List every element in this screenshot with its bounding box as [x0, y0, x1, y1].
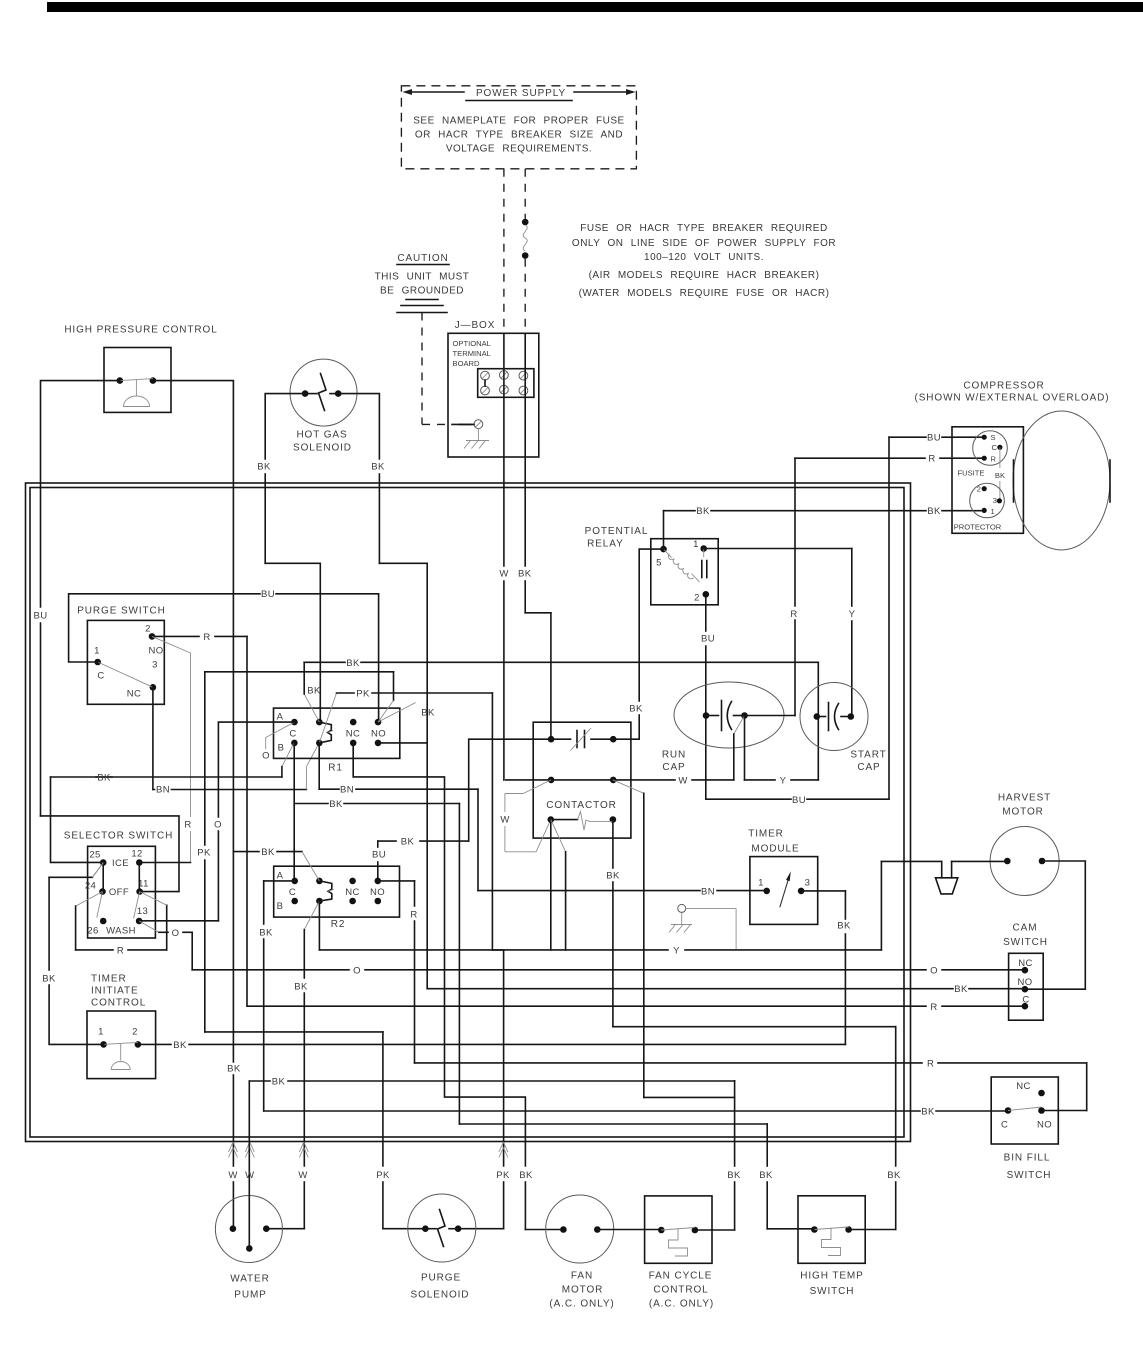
- wire label R: [184, 820, 191, 831]
- contactor coil: [548, 812, 617, 831]
- svg-text:BK: BK: [887, 1170, 901, 1181]
- bin fill NC: [1016, 1081, 1045, 1096]
- selector contact 25: [89, 850, 106, 866]
- svg-text:(A.C. ONLY): (A.C. ONLY): [649, 1299, 714, 1310]
- svg-text:26: 26: [87, 926, 98, 937]
- svg-text:BOARD: BOARD: [453, 359, 481, 368]
- svg-text:HIGH TEMP: HIGH TEMP: [800, 1271, 863, 1282]
- protector terminal 2: [977, 485, 987, 494]
- j-box enclosure: [448, 333, 539, 457]
- svg-text:R: R: [928, 454, 935, 465]
- svg-text:OFF: OFF: [109, 887, 129, 898]
- wire label PK: [197, 848, 211, 859]
- potential relay label: [585, 526, 649, 550]
- contactor main contact 1: [548, 728, 617, 751]
- R2 coil bracket: [319, 881, 333, 901]
- contactor main contact 2: [506, 777, 617, 784]
- R1 pin C: [278, 728, 298, 753]
- svg-text:NO: NO: [370, 887, 385, 898]
- svg-text:WASH: WASH: [106, 926, 136, 937]
- svg-text:SOLENOID: SOLENOID: [411, 1290, 470, 1301]
- wire BK hot gas left to R1 coil: [265, 394, 320, 722]
- selector blade 25: [92, 863, 103, 878]
- svg-text:BK: BK: [294, 982, 308, 993]
- svg-text:BK: BK: [629, 704, 643, 715]
- R1 coil bracket: [319, 722, 333, 743]
- relay R1 box: [274, 708, 400, 758]
- svg-text:SELECTOR SWITCH: SELECTOR SWITCH: [64, 831, 173, 842]
- timer initiate contact 2: [132, 1027, 141, 1048]
- hot gas solenoid label: [293, 430, 352, 454]
- wire R purge 2 to cam switch C: [152, 636, 1025, 1006]
- wire label BK: [346, 658, 360, 669]
- R2 pin C: [277, 887, 298, 912]
- svg-text:J—BOX: J—BOX: [455, 320, 496, 331]
- hpc bellows: [124, 380, 150, 407]
- selector contact 12: [131, 849, 142, 866]
- svg-text:C: C: [289, 887, 296, 898]
- wire label BK: [606, 871, 620, 882]
- wire crossing mark W: [299, 1142, 308, 1158]
- water pump: [215, 1196, 282, 1263]
- wire BK R2 coil bottom to water pump: [266, 901, 319, 1229]
- svg-text:BU: BU: [372, 850, 386, 861]
- cam switch box: [1009, 953, 1044, 1020]
- svg-text:TIMER: TIMER: [748, 829, 784, 840]
- purge solenoid: [408, 1194, 476, 1262]
- wire label BK: [173, 1040, 187, 1051]
- wire label BU: [34, 611, 48, 622]
- wire label O: [353, 965, 361, 976]
- svg-text:BN: BN: [340, 785, 354, 796]
- purge switch blade: [98, 662, 153, 687]
- terminal screw T2: [500, 371, 509, 380]
- svg-text:BK: BK: [329, 799, 343, 810]
- svg-text:CAP: CAP: [857, 762, 880, 773]
- wire label PK: [376, 1170, 390, 1181]
- wire caution ground to j-box dashed: [422, 313, 472, 425]
- timer module pin 3: [798, 878, 811, 895]
- power supply dimension arrow left: [403, 89, 465, 95]
- svg-text:ICE: ICE: [112, 858, 129, 869]
- selector contact 24: [85, 881, 106, 895]
- wire label BU: [372, 850, 386, 861]
- protector terminal 3: [993, 496, 1002, 505]
- wire contactor coil left stub down: [550, 820, 552, 950]
- compressor shell ellipse: [1013, 411, 1110, 550]
- svg-text:W: W: [298, 1170, 307, 1181]
- protector label: [954, 523, 1002, 532]
- svg-text:BK: BK: [606, 871, 620, 882]
- wire label BK: [759, 1170, 773, 1181]
- svg-text:CAUTION: CAUTION: [397, 253, 448, 264]
- bin fill C: [1001, 1107, 1011, 1130]
- timer module box: [750, 857, 818, 925]
- wire BN purge 3 to R1 coil B: [153, 687, 319, 789]
- wire W1 to R1 NO top: [205, 672, 394, 722]
- R2 coil pins: [316, 878, 323, 905]
- R1 pin NC: [346, 719, 361, 746]
- svg-text:OR HACR TYPE BREAKER SIZE AND: OR HACR TYPE BREAKER SIZE AND: [415, 130, 623, 141]
- wire BK R1 NO to hot-gas wire: [378, 742, 427, 744]
- svg-text:HOT GAS: HOT GAS: [296, 430, 347, 441]
- timer module label: [748, 829, 799, 855]
- fuse symbol on L2: [522, 219, 529, 259]
- svg-text:5: 5: [656, 558, 662, 569]
- selector switch label: [64, 831, 173, 842]
- svg-text:BK: BK: [954, 984, 968, 995]
- svg-text:2: 2: [145, 624, 151, 635]
- cam switch NO: [1017, 977, 1032, 993]
- wire R R2 NO to bin fill NO: [378, 881, 1087, 1111]
- wire O R1 A to selector 13: [139, 722, 294, 921]
- svg-text:BK: BK: [173, 1040, 187, 1051]
- svg-text:POTENTIAL: POTENTIAL: [585, 526, 649, 537]
- svg-text:PK: PK: [376, 1170, 390, 1181]
- start cap plates: [814, 703, 855, 731]
- high temp switch label: [800, 1271, 863, 1298]
- svg-text:BIN FILL: BIN FILL: [1004, 1153, 1051, 1164]
- svg-text:BU: BU: [927, 433, 941, 444]
- wire Y relay 1 to start cap: [704, 549, 852, 717]
- wire label BK: [519, 1170, 533, 1181]
- R1 pin A: [277, 712, 298, 726]
- wire BN to timer module 1: [319, 743, 767, 891]
- svg-text:BK: BK: [421, 708, 435, 719]
- svg-text:Y: Y: [673, 945, 680, 956]
- wire BU hpc to selector 11: [41, 381, 180, 892]
- caution ground symbol: [397, 300, 447, 313]
- fan cycle contacts: [658, 1227, 698, 1234]
- wire crossing mark PK: [499, 1142, 508, 1158]
- svg-text:BK: BK: [921, 1107, 935, 1118]
- wire BK fusite C to protector 3: [999, 447, 1001, 501]
- timer initiate control label: [91, 974, 146, 1009]
- wire label R: [117, 945, 124, 956]
- protector circle: [970, 483, 1005, 518]
- relay R2 box: [274, 866, 400, 917]
- purge switch contact 3: [127, 660, 158, 700]
- svg-text:R2: R2: [331, 919, 346, 930]
- svg-text:BK: BK: [97, 773, 111, 784]
- wire label BK: [837, 921, 851, 932]
- wire label BK: [272, 1077, 286, 1088]
- svg-text:INITIATE: INITIATE: [91, 986, 139, 997]
- svg-text:WATER: WATER: [230, 1274, 270, 1285]
- svg-text:CONTACTOR: CONTACTOR: [546, 800, 617, 811]
- wire BK timer initiate 2 to timer module 3: [138, 891, 846, 1045]
- svg-text:BK: BK: [696, 506, 710, 517]
- svg-text:NO: NO: [371, 728, 386, 739]
- svg-text:A: A: [277, 712, 284, 723]
- svg-text:BK: BK: [261, 847, 275, 858]
- power supply note text: [413, 116, 624, 155]
- svg-text:24: 24: [85, 881, 96, 892]
- j-box optional terminal board text: [453, 339, 491, 368]
- svg-text:SOLENOID: SOLENOID: [293, 443, 352, 454]
- relay contact bars: [702, 549, 707, 578]
- svg-text:12: 12: [131, 849, 142, 860]
- selector OFF label: [109, 887, 129, 898]
- run cap plates: [703, 701, 748, 731]
- cam switch NC: [1018, 958, 1033, 974]
- timer initiate contact 1: [98, 1027, 107, 1048]
- title bar: [47, 2, 1143, 12]
- terminal screw T1: [481, 371, 490, 380]
- water pump label: [230, 1274, 270, 1301]
- svg-text:W: W: [228, 1170, 237, 1181]
- svg-text:CAM: CAM: [1013, 923, 1038, 934]
- wire label BU: [701, 634, 715, 645]
- wire label BN: [155, 785, 170, 796]
- R1 pin NO: [371, 719, 386, 746]
- run cap: [674, 682, 784, 748]
- wire W run cap to contactor: [613, 716, 744, 780]
- svg-text:(A.C. ONLY): (A.C. ONLY): [549, 1299, 614, 1310]
- svg-text:(SHOWN W/EXTERNAL OVERLOAD): (SHOWN W/EXTERNAL OVERLOAD): [914, 393, 1109, 404]
- wire label BK: [401, 837, 415, 848]
- fan motor: [546, 1195, 614, 1263]
- wire BK relay 5 to compressor 1: [664, 511, 985, 549]
- svg-text:BK: BK: [259, 928, 273, 939]
- svg-text:C: C: [1001, 1120, 1008, 1131]
- power supply dimension arrow right: [574, 89, 636, 95]
- wire label BU: [792, 795, 806, 806]
- wire label W: [499, 569, 509, 580]
- fusite terminal R: [982, 455, 997, 464]
- wire W jumper contactor (thin): [505, 780, 551, 852]
- hpc contact left: [117, 377, 124, 384]
- svg-text:3: 3: [993, 496, 997, 505]
- svg-text:O: O: [353, 965, 361, 976]
- wire crossing marks W: [229, 1142, 255, 1158]
- svg-text:R: R: [117, 945, 124, 956]
- wire power L2 dashed lower: [524, 259, 526, 334]
- harvest plug funnel: [936, 861, 1008, 893]
- relay contact 2: [694, 591, 709, 604]
- wire BK timer initiate 1 to selector 25: [49, 863, 104, 1045]
- harvest motor label: [998, 793, 1051, 818]
- hpc contact right: [150, 377, 157, 384]
- fusite label: [957, 469, 984, 478]
- wire label BK: [259, 928, 273, 939]
- svg-text:C: C: [992, 443, 998, 452]
- wire BK branch to high temp switch: [294, 804, 814, 1229]
- svg-text:FAN: FAN: [571, 1271, 593, 1282]
- wire label BK: [727, 1170, 741, 1181]
- wire label BK: [887, 1170, 901, 1181]
- timer initiate blade: [104, 1042, 138, 1044]
- svg-text:RELAY: RELAY: [587, 539, 624, 550]
- potential relay box: [651, 539, 718, 605]
- svg-text:START: START: [850, 750, 886, 761]
- svg-text:PK: PK: [197, 848, 211, 859]
- fan cycle control label: [649, 1271, 714, 1310]
- wire label R: [790, 609, 797, 620]
- selector blade 24-26: [97, 892, 103, 918]
- compressor winding bars: [1014, 460, 1111, 502]
- svg-text:O: O: [930, 965, 938, 976]
- wire label BU: [261, 589, 275, 600]
- purge switch contact 1: [94, 646, 104, 682]
- svg-text:BK: BK: [727, 1170, 741, 1181]
- svg-text:BE GROUNDED: BE GROUNDED: [380, 286, 464, 297]
- svg-text:MOTOR: MOTOR: [562, 1285, 604, 1296]
- svg-text:Y: Y: [780, 775, 787, 786]
- wire BU relay 2 to compressor S: [706, 437, 984, 799]
- wire BK contactor row2 right to fan cycle: [613, 780, 735, 1230]
- svg-text:B: B: [278, 742, 285, 753]
- wire label R: [203, 632, 210, 643]
- svg-text:PK: PK: [496, 1170, 510, 1181]
- svg-text:1: 1: [94, 646, 100, 657]
- purge switch label: [77, 606, 166, 617]
- svg-text:BK: BK: [371, 462, 385, 473]
- wire R run cap to compressor R: [745, 458, 985, 715]
- svg-text:POWER SUPPLY: POWER SUPPLY: [476, 88, 566, 99]
- cam switch C: [1022, 995, 1030, 1010]
- svg-text:BK: BK: [837, 921, 851, 932]
- fan motor label: [549, 1271, 614, 1310]
- svg-text:NO: NO: [148, 646, 163, 657]
- svg-text:RUN: RUN: [662, 750, 686, 761]
- caution text: [375, 253, 470, 297]
- svg-text:C: C: [289, 728, 296, 739]
- svg-text:PURGE: PURGE: [421, 1273, 461, 1284]
- svg-text:BK: BK: [257, 462, 271, 473]
- svg-text:COMPRESSOR: COMPRESSOR: [963, 381, 1044, 392]
- svg-text:R: R: [184, 820, 191, 831]
- purge switch box: [87, 620, 164, 704]
- svg-text:THIS UNIT MUST: THIS UNIT MUST: [375, 272, 470, 283]
- svg-text:BK: BK: [42, 974, 56, 985]
- fusite circle: [973, 431, 1008, 466]
- selector link 25-24: [102, 863, 104, 892]
- start cap: [800, 683, 868, 751]
- timer module ground: [669, 904, 736, 949]
- selector link 12-11: [138, 863, 140, 892]
- enclosure border inner: [30, 488, 904, 1138]
- wire label R: [927, 1058, 934, 1069]
- wire BK R1 C down to R2 A: [293, 743, 295, 881]
- svg-text:R: R: [991, 455, 997, 464]
- svg-text:BU: BU: [261, 589, 275, 600]
- wire PK corridor to purge solenoid left: [205, 672, 426, 1229]
- svg-text:CAP: CAP: [662, 762, 685, 773]
- wire label W: [298, 1170, 307, 1181]
- svg-text:SWITCH: SWITCH: [810, 1286, 855, 1297]
- selector contact 11: [136, 879, 149, 895]
- svg-text:R: R: [930, 1002, 937, 1013]
- svg-text:1: 1: [98, 1027, 104, 1038]
- wire label W: [228, 1170, 238, 1181]
- wire fan motor to fan cycle: [597, 1229, 661, 1231]
- wire label BK: [261, 847, 275, 858]
- selector contact 26: [87, 918, 106, 937]
- contactor label: [546, 800, 617, 811]
- wire BK hot gas right: [338, 394, 427, 989]
- high pressure control label: [64, 325, 217, 336]
- high temp contacts: [811, 1226, 852, 1233]
- svg-text:2: 2: [694, 593, 700, 604]
- svg-text:PK: PK: [356, 689, 370, 700]
- bin fill blade: [1008, 1107, 1042, 1111]
- svg-text:BU: BU: [792, 795, 806, 806]
- hot gas solenoid: [290, 359, 357, 426]
- svg-text:NC: NC: [1016, 1081, 1031, 1092]
- wire label BK: [371, 462, 385, 473]
- svg-text:NC: NC: [127, 689, 142, 700]
- svg-text:CONTROL: CONTROL: [653, 1285, 708, 1296]
- compressor terminal box: [952, 427, 1023, 534]
- wire contactor coil left diag down: [551, 820, 566, 950]
- svg-text:ONLY ON LINE SIDE OF POWER SUP: ONLY ON LINE SIDE OF POWER SUPPLY FOR: [572, 238, 836, 249]
- wire label BK: [995, 471, 1005, 480]
- timer initiate box: [87, 1011, 156, 1079]
- svg-text:BK: BK: [519, 1170, 533, 1181]
- j-box ground screw: [459, 420, 483, 429]
- svg-text:Y: Y: [849, 609, 856, 620]
- relay coil spring: [664, 549, 700, 582]
- timer initiate bellows: [111, 1043, 130, 1069]
- wire label BK: [42, 974, 56, 985]
- bin fill NO: [1037, 1107, 1052, 1130]
- svg-text:R: R: [790, 609, 797, 620]
- svg-text:BN: BN: [156, 785, 170, 796]
- R2 pin A: [277, 870, 298, 884]
- svg-text:(AIR MODELS REQUIRE HACR BREAK: (AIR MODELS REQUIRE HACR BREAKER): [589, 270, 820, 281]
- svg-text:VOLTAGE REQUIREMENTS.: VOLTAGE REQUIREMENTS.: [446, 144, 592, 155]
- svg-text:FAN CYCLE: FAN CYCLE: [649, 1271, 713, 1282]
- wire label BK at R1 coil: [307, 686, 321, 697]
- wire label BK: [696, 506, 710, 517]
- svg-text:OPTIONAL: OPTIONAL: [453, 339, 491, 348]
- wire BK R1 NC to fan motor: [353, 743, 563, 1230]
- terminal screw T4: [481, 386, 490, 395]
- svg-text:BK: BK: [307, 686, 321, 697]
- svg-text:SWITCH: SWITCH: [1003, 937, 1048, 948]
- wire BK to cam NO: [427, 988, 1025, 990]
- svg-text:R: R: [410, 910, 417, 921]
- svg-text:B: B: [277, 901, 284, 912]
- j-box label: [455, 320, 496, 331]
- wire W water pump middle: [249, 1081, 734, 1248]
- wire label O: [930, 965, 938, 976]
- svg-text:BK: BK: [759, 1170, 773, 1181]
- protector terminal 1: [982, 507, 995, 516]
- wire Y R2 coil bottom to harvest motor: [319, 861, 941, 950]
- wire Y run cap to start cap: [745, 716, 819, 780]
- svg-text:2: 2: [132, 1027, 138, 1038]
- wire label BK: [927, 506, 941, 517]
- terminal screw T6: [519, 386, 528, 395]
- wire label BN: [340, 785, 354, 796]
- svg-text:PUMP: PUMP: [234, 1290, 267, 1301]
- svg-text:2: 2: [977, 485, 981, 494]
- relay contact 5: [656, 546, 667, 569]
- svg-text:25: 25: [89, 850, 100, 861]
- power supply dashed box: [401, 86, 636, 169]
- fusite terminal S: [982, 433, 996, 442]
- timer module pin 1: [758, 878, 770, 895]
- svg-text:BK: BK: [927, 506, 941, 517]
- svg-text:O: O: [172, 928, 180, 939]
- bin fill switch label: [1004, 1153, 1052, 1182]
- wire BK R1 C to selector 25: [51, 743, 294, 863]
- svg-text:W: W: [678, 775, 687, 786]
- timer module arrow: [780, 871, 791, 907]
- high temp bimetal: [822, 1228, 841, 1256]
